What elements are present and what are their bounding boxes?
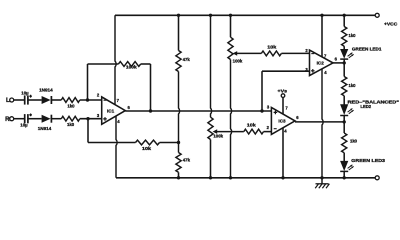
wire RV1 wiper bbox=[236, 52, 262, 54]
resistor R10 1k0 bbox=[342, 77, 347, 96]
terminal +VCC bbox=[375, 13, 379, 17]
svg-text:10k: 10k bbox=[142, 146, 152, 151]
wire LED2 to node bbox=[343, 116, 345, 122]
op-amp IC1 bbox=[102, 97, 126, 124]
node bottom rail / pot RV2 bbox=[209, 176, 212, 179]
wire R8 to divider bbox=[160, 142, 179, 144]
svg-text:10µ: 10µ bbox=[20, 122, 28, 127]
wire IC3 pin7 supply bbox=[282, 97, 284, 114]
node feedback / pin2 bbox=[86, 98, 89, 101]
node bottom rail / pot RV1 line bbox=[229, 176, 232, 179]
resistor R9 1k0 bbox=[342, 27, 347, 47]
svg-text:47k: 47k bbox=[183, 157, 191, 162]
wire IC3 pin4 down bbox=[282, 128, 284, 178]
wire R4 to R5 bbox=[179, 72, 180, 153]
wire IC1 output to IC3 pin3 bbox=[125, 110, 271, 112]
wire R6 to IC2 pin2 bbox=[281, 52, 309, 54]
resistor R2 1k0 bbox=[61, 116, 80, 121]
wire R10 to LED2 bbox=[343, 96, 345, 105]
wire feedback top right bbox=[141, 63, 151, 65]
node top rail / LED chain bbox=[343, 14, 346, 17]
svg-text:IC2: IC2 bbox=[317, 61, 325, 66]
wire drop to R8 bbox=[88, 142, 136, 144]
wire L terminal to C1 bbox=[14, 99, 25, 101]
svg-text:1k0: 1k0 bbox=[349, 83, 357, 88]
svg-text:LED2: LED2 bbox=[360, 104, 371, 109]
potentiometer RV1 100k bbox=[228, 37, 233, 59]
wire IC2 pin4 to ground bbox=[322, 69, 323, 184]
wire IC3 output bbox=[295, 121, 344, 123]
op-amp IC3 bbox=[271, 107, 295, 134]
wire pot RV2 to bottom rail bbox=[210, 140, 212, 178]
wire IC1 pin4 down bbox=[116, 116, 117, 177]
resistor R11 1k0 bbox=[342, 133, 347, 153]
svg-text:1N914: 1N914 bbox=[39, 88, 53, 93]
wire R1 to IC1 pin2 bbox=[80, 99, 102, 101]
wire feedback right drop bbox=[150, 64, 152, 111]
wire R2 to IC1 pin3 bbox=[80, 118, 102, 120]
svg-text:47k: 47k bbox=[183, 57, 191, 62]
svg-text:1k0: 1k0 bbox=[349, 33, 357, 38]
svg-text:RED–“BALANCED”: RED–“BALANCED” bbox=[348, 99, 400, 104]
diode D1 1N914 bbox=[42, 96, 51, 104]
node pin3 / divider drop bbox=[86, 117, 89, 120]
svg-text:100k: 100k bbox=[126, 65, 137, 70]
node divider / 10k line bbox=[177, 141, 180, 144]
wire C2 to D2 bbox=[28, 118, 42, 120]
resistor R3 100k feedback bbox=[118, 62, 140, 67]
diode D2 1N914 bbox=[42, 115, 51, 123]
svg-text:IC1: IC1 bbox=[107, 108, 115, 113]
potentiometer RV2 100k bbox=[208, 117, 213, 139]
wire IC2 pin7 supply bbox=[321, 15, 323, 57]
svg-text:10µ: 10µ bbox=[21, 91, 29, 96]
resistor R4 47k bbox=[176, 51, 181, 72]
wire R7 to IC3 pin2 bbox=[264, 131, 272, 133]
svg-text:10k: 10k bbox=[247, 122, 257, 127]
node bottom rail / IC3 pin4 bbox=[281, 176, 284, 179]
terminal 0V bbox=[375, 176, 379, 180]
resistor R8 10k bbox=[136, 140, 160, 145]
node IC2 pin3 / output line bbox=[260, 109, 263, 112]
wire feedback top left bbox=[88, 63, 119, 65]
wire node to R11 bbox=[343, 122, 345, 133]
wire top rail to pot RV2 bbox=[211, 15, 212, 117]
op-amp IC2 bbox=[310, 50, 334, 76]
wire C1 to D1 bbox=[28, 99, 42, 101]
wire D1 to R1 bbox=[51, 99, 61, 101]
wire top +VCC rail bbox=[115, 14, 375, 16]
node top rail / pot RV2 bbox=[209, 14, 212, 17]
wire RV2 wiper bbox=[216, 131, 244, 133]
node bottom rail / IC2 pin4 bbox=[320, 176, 323, 179]
node top rail / IC2 pin7 bbox=[320, 14, 323, 17]
svg-text:1k0: 1k0 bbox=[350, 138, 358, 143]
wire IC1 pin7 supply bbox=[115, 15, 116, 104]
wire top rail to pot RV1 bbox=[230, 15, 232, 37]
svg-text:1N914: 1N914 bbox=[38, 126, 52, 131]
wire LED3 to bottom rail bbox=[343, 171, 345, 177]
svg-text:100k: 100k bbox=[213, 133, 223, 138]
node bottom rail / LED chain bbox=[343, 176, 346, 179]
svg-text:IC3: IC3 bbox=[278, 119, 286, 124]
wire LED1 to node bbox=[343, 59, 345, 63]
svg-text:+Vs: +Vs bbox=[278, 88, 288, 93]
terminal +Vs bbox=[281, 94, 285, 98]
wire R5 to bottom rail bbox=[178, 172, 180, 178]
resistor R1 1k0 bbox=[61, 98, 80, 103]
wire node to R10 bbox=[343, 63, 345, 77]
wire IC2 pin3 drop bbox=[261, 71, 263, 111]
svg-text:GREEN LED1: GREEN LED1 bbox=[352, 46, 382, 51]
node top rail / 47k bbox=[177, 14, 180, 17]
capacitor C2 10u bbox=[24, 114, 26, 123]
svg-text:10k: 10k bbox=[267, 45, 277, 50]
node feedback / output line bbox=[149, 109, 152, 112]
node bottom rail / 47k bbox=[177, 176, 180, 179]
wire top rail to R4 bbox=[178, 15, 180, 50]
resistor R5 47k bbox=[176, 153, 181, 173]
LED3 green bbox=[341, 161, 348, 170]
wire feedback left drop bbox=[87, 64, 89, 100]
wire pot RV1 down to bottom rail bbox=[231, 60, 232, 178]
LED2 red balanced bbox=[341, 105, 348, 114]
wire bottom 0V rail bbox=[116, 177, 375, 179]
svg-text:1k0: 1k0 bbox=[67, 122, 75, 127]
svg-text:GREEN LED3: GREEN LED3 bbox=[351, 158, 386, 163]
wire IC2 pin3 left bbox=[262, 70, 310, 72]
wire top rail to R9 bbox=[343, 15, 345, 26]
node IC2 output / LED chain bbox=[343, 61, 346, 64]
node IC3 output / LED chain bbox=[343, 120, 346, 123]
svg-text:1k0: 1k0 bbox=[67, 103, 75, 108]
wire R9 to LED1 bbox=[343, 46, 345, 49]
ground bbox=[316, 183, 329, 185]
terminal R bbox=[10, 117, 14, 121]
node top rail / pot RV1 bbox=[229, 14, 232, 17]
wire D2 to R2 bbox=[51, 118, 61, 120]
svg-text:100k: 100k bbox=[233, 59, 243, 64]
wire pin3 node drop bbox=[87, 119, 89, 143]
LED1 green bbox=[341, 49, 348, 57]
svg-text:+VCC: +VCC bbox=[384, 21, 398, 26]
terminal L bbox=[10, 98, 14, 102]
capacitor C1 10u bbox=[24, 95, 26, 104]
wire R11 to LED3 bbox=[343, 153, 345, 162]
wire R terminal to C2 bbox=[14, 118, 25, 120]
resistor R6 10k bbox=[261, 51, 281, 56]
wire IC2 output bbox=[333, 62, 344, 64]
resistor R7 10k bbox=[244, 129, 264, 134]
